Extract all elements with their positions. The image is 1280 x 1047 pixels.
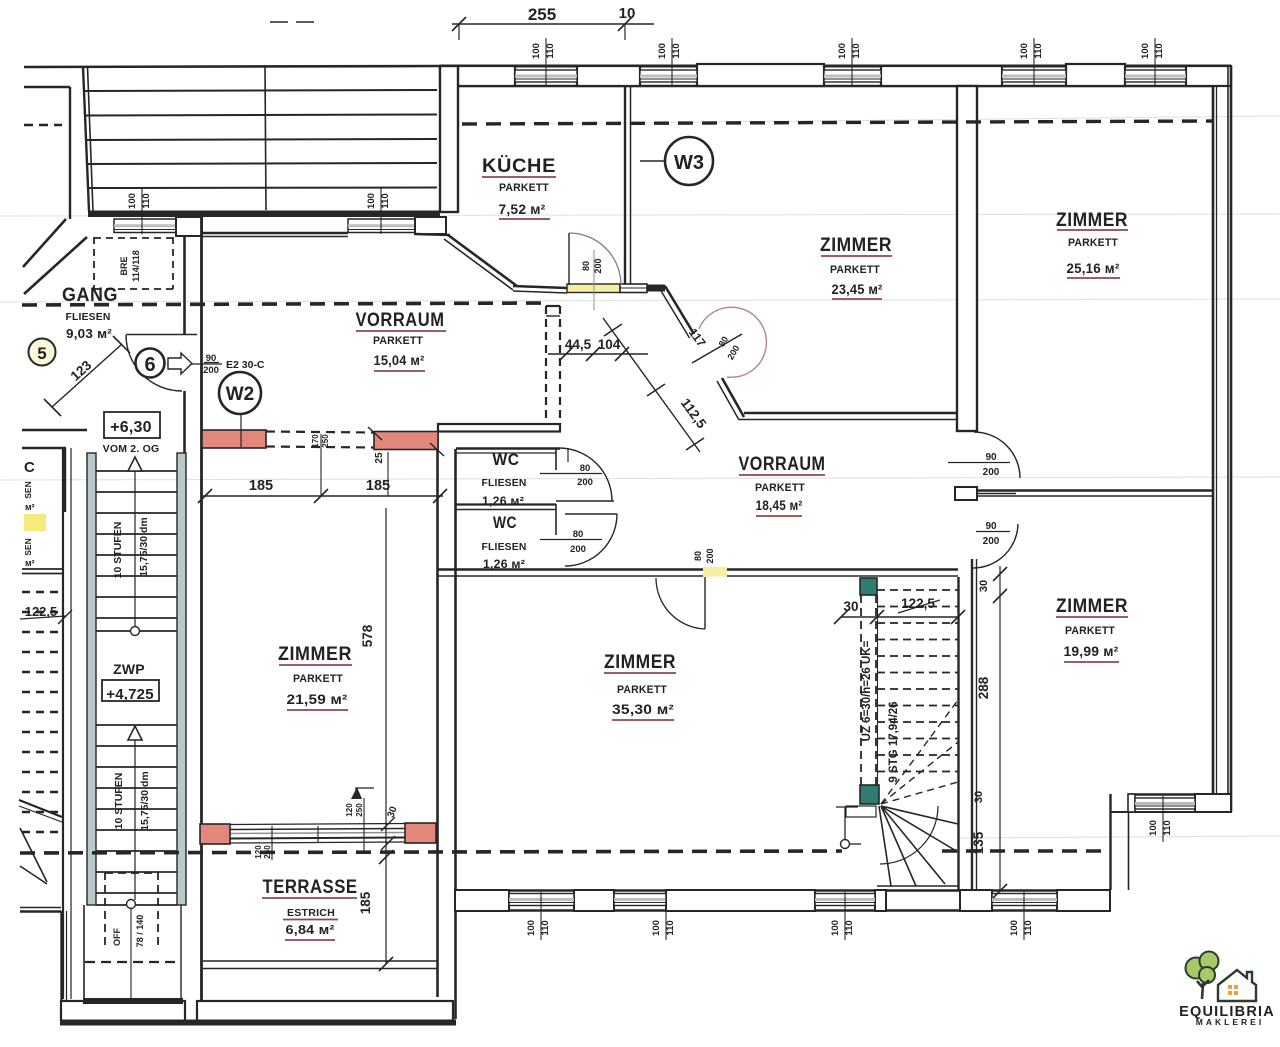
- svg-text:7,52 м²: 7,52 м²: [499, 202, 546, 217]
- svg-text:SEN: SEN: [23, 481, 33, 498]
- svg-text:PARKETT: PARKETT: [499, 182, 549, 194]
- svg-text:FLIESEN: FLIESEN: [482, 541, 527, 553]
- svg-text:PARKETT: PARKETT: [755, 482, 805, 494]
- svg-text:1,26 м²: 1,26 м²: [483, 557, 525, 571]
- svg-text:MAKLEREI: MAKLEREI: [1196, 1017, 1264, 1027]
- svg-text:VOM 2. OG: VOM 2. OG: [103, 443, 160, 455]
- svg-text:KÜCHE: KÜCHE: [482, 156, 556, 177]
- svg-text:15,75/30 dm: 15,75/30 dm: [139, 771, 151, 831]
- svg-text:W3: W3: [674, 152, 704, 174]
- svg-text:GANG: GANG: [62, 285, 118, 306]
- svg-text:120: 120: [345, 803, 354, 817]
- svg-text:100: 100: [1140, 43, 1151, 59]
- svg-text:110: 110: [141, 193, 152, 208]
- svg-text:100: 100: [127, 193, 138, 209]
- svg-text:578: 578: [360, 624, 375, 647]
- svg-text:110: 110: [671, 43, 682, 58]
- svg-text:110: 110: [1033, 43, 1044, 58]
- svg-text:80: 80: [693, 551, 703, 561]
- svg-text:VORRAUM: VORRAUM: [739, 454, 826, 475]
- svg-text:250: 250: [263, 845, 272, 859]
- svg-text:90: 90: [985, 521, 997, 532]
- svg-text:200: 200: [577, 477, 593, 488]
- svg-text:100: 100: [1019, 43, 1030, 59]
- svg-text:100: 100: [1009, 920, 1020, 936]
- svg-text:FLIESEN: FLIESEN: [66, 311, 111, 323]
- svg-text:200: 200: [570, 544, 586, 555]
- svg-text:10 STUFEN: 10 STUFEN: [112, 522, 124, 579]
- svg-text:FLIESEN: FLIESEN: [482, 477, 527, 489]
- svg-text:135: 135: [971, 831, 986, 854]
- svg-text:WC: WC: [493, 513, 517, 532]
- svg-text:185: 185: [249, 478, 273, 494]
- svg-text:100: 100: [837, 43, 848, 59]
- svg-text:м²: м²: [25, 558, 35, 568]
- svg-text:200: 200: [983, 536, 1000, 547]
- svg-text:E2 30-C: E2 30-C: [226, 359, 265, 371]
- svg-text:110: 110: [380, 193, 391, 208]
- svg-text:10: 10: [619, 5, 636, 22]
- svg-text:110: 110: [1023, 920, 1034, 935]
- svg-text:110: 110: [665, 920, 676, 935]
- svg-text:30: 30: [843, 599, 858, 614]
- svg-text:100: 100: [651, 920, 662, 936]
- svg-text:WC: WC: [493, 450, 520, 469]
- svg-text:15,04 м²: 15,04 м²: [374, 353, 425, 368]
- svg-text:110: 110: [1162, 820, 1173, 835]
- svg-text:250: 250: [321, 434, 330, 448]
- svg-text:185: 185: [358, 891, 373, 914]
- svg-text:BRE: BRE: [119, 256, 129, 275]
- svg-text:+6,30: +6,30: [110, 419, 151, 436]
- svg-text:9,03 м²: 9,03 м²: [66, 327, 112, 341]
- svg-text:VORRAUM: VORRAUM: [356, 310, 445, 331]
- svg-text:78 / 140: 78 / 140: [135, 915, 145, 948]
- svg-text:30: 30: [978, 580, 990, 592]
- svg-text:10 STUFEN: 10 STUFEN: [113, 773, 125, 830]
- svg-text:100: 100: [526, 920, 537, 936]
- svg-text:PARKETT: PARKETT: [1068, 237, 1118, 249]
- svg-text:110: 110: [540, 920, 551, 935]
- svg-text:ESTRICH: ESTRICH: [287, 907, 335, 919]
- svg-text:ZIMMER: ZIMMER: [604, 652, 676, 673]
- svg-text:ZWP: ZWP: [113, 661, 145, 677]
- svg-text:23,45 м²: 23,45 м²: [832, 282, 883, 297]
- svg-text:170: 170: [311, 434, 320, 448]
- svg-text:110: 110: [844, 920, 855, 935]
- svg-text:15,75/30 dm: 15,75/30 dm: [138, 517, 150, 577]
- svg-text:100: 100: [531, 43, 542, 59]
- svg-text:90: 90: [206, 353, 217, 364]
- svg-text:80: 80: [580, 463, 591, 474]
- svg-text:25,16 м²: 25,16 м²: [1067, 261, 1120, 276]
- svg-text:114/118: 114/118: [131, 250, 141, 282]
- svg-text:35,30 м²: 35,30 м²: [612, 702, 674, 717]
- svg-text:100: 100: [657, 43, 668, 59]
- svg-text:100: 100: [366, 193, 377, 209]
- svg-text:200: 200: [983, 467, 1000, 478]
- svg-text:100: 100: [830, 920, 841, 936]
- svg-text:6: 6: [144, 354, 155, 376]
- svg-text:W2: W2: [226, 384, 255, 405]
- svg-text:255: 255: [528, 5, 556, 24]
- svg-text:110: 110: [851, 43, 862, 58]
- svg-text:ZIMMER: ZIMMER: [278, 644, 352, 665]
- svg-text:5: 5: [37, 344, 46, 363]
- svg-text:PARKETT: PARKETT: [830, 264, 880, 276]
- svg-text:ZIMMER: ZIMMER: [820, 235, 892, 256]
- svg-text:21,59 м²: 21,59 м²: [287, 692, 348, 707]
- svg-text:19,99 м²: 19,99 м²: [1064, 644, 1119, 659]
- svg-text:25: 25: [374, 452, 385, 464]
- svg-text:120: 120: [254, 845, 263, 859]
- svg-text:44,5: 44,5: [565, 337, 592, 352]
- svg-text:110: 110: [1154, 43, 1165, 58]
- svg-text:110: 110: [545, 43, 556, 58]
- svg-text:ZIMMER: ZIMMER: [1056, 210, 1128, 231]
- svg-text:PARKETT: PARKETT: [373, 335, 423, 347]
- svg-text:18,45 м²: 18,45 м²: [756, 498, 803, 513]
- svg-text:80: 80: [573, 529, 584, 540]
- svg-text:288: 288: [976, 676, 991, 699]
- svg-text:PARKETT: PARKETT: [1065, 625, 1115, 637]
- svg-text:OFF: OFF: [112, 928, 122, 946]
- svg-text:6,84 м²: 6,84 м²: [286, 923, 335, 937]
- svg-text:104: 104: [598, 337, 621, 352]
- svg-text:200: 200: [203, 365, 219, 376]
- svg-text:80: 80: [581, 261, 591, 271]
- svg-text:200: 200: [705, 548, 715, 563]
- svg-text:200: 200: [593, 258, 603, 273]
- svg-text:PARKETT: PARKETT: [293, 673, 343, 685]
- svg-text:185: 185: [366, 478, 390, 494]
- svg-text:1,26 м²: 1,26 м²: [482, 494, 524, 508]
- svg-text:9 STG 17,94/26: 9 STG 17,94/26: [888, 701, 900, 782]
- svg-text:TERRASSE: TERRASSE: [263, 877, 358, 898]
- svg-text:PARKETT: PARKETT: [617, 684, 667, 696]
- svg-text:м²: м²: [25, 502, 35, 512]
- svg-text:250: 250: [355, 803, 364, 817]
- svg-text:90: 90: [985, 452, 997, 463]
- svg-text:SEN: SEN: [23, 538, 33, 555]
- svg-text:UZ 6=30/h=26 UK=: UZ 6=30/h=26 UK=: [861, 640, 873, 741]
- svg-text:100: 100: [1148, 820, 1159, 836]
- svg-text:C: C: [24, 459, 35, 476]
- svg-text:ZIMMER: ZIMMER: [1056, 596, 1128, 617]
- svg-text:30: 30: [973, 791, 985, 803]
